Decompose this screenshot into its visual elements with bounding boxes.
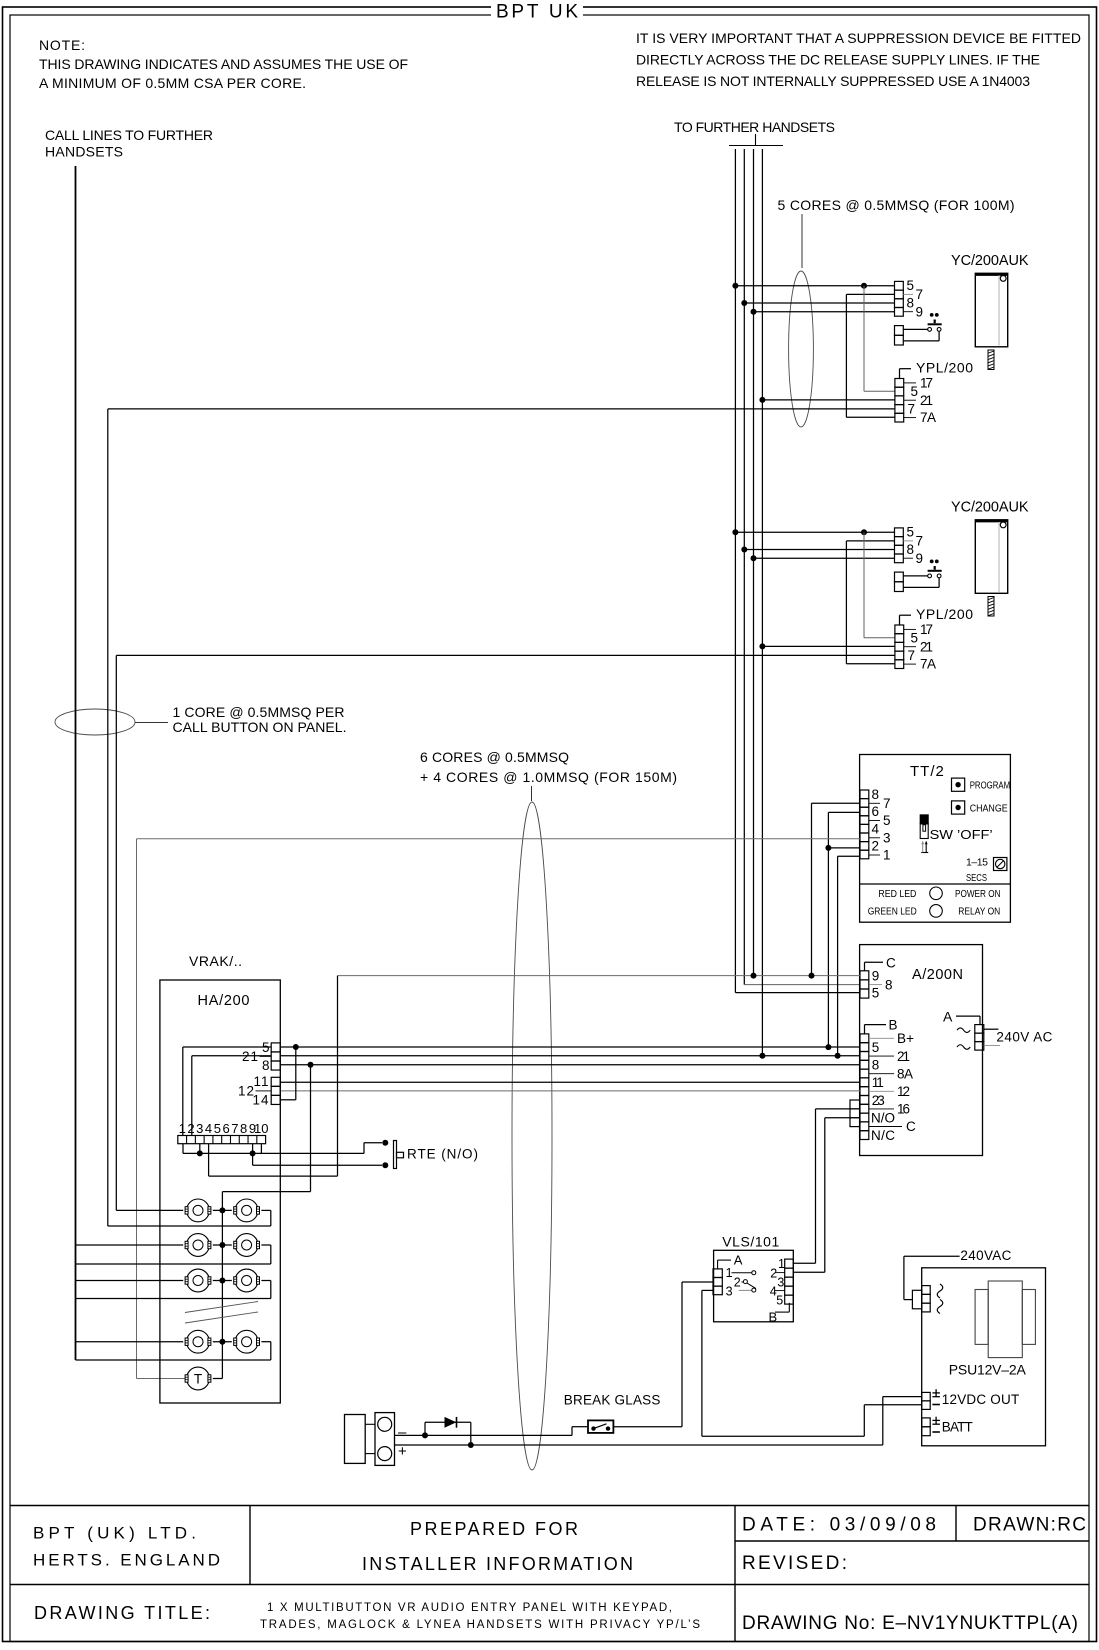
svg-text:2: 2: [734, 1275, 741, 1289]
wire row 4 feed: [76, 1341, 184, 1343]
wire bus4 to YPL 21: [759, 397, 895, 403]
wire row 3 link: [213, 1278, 232, 1284]
privacy switch #2: [903, 560, 941, 588]
svg-text:3: 3: [883, 830, 891, 845]
VLS contact 3: [739, 1288, 756, 1292]
wire panel to YPL2 terminal 7: [116, 655, 895, 1210]
label terminal 8: [907, 542, 915, 557]
svg-text:TO FURTHER HANDSETS: TO FURTHER HANDSETS: [674, 119, 835, 135]
cable ellipse 5 cores: [789, 271, 814, 427]
label YPL terminal 17: [904, 376, 933, 391]
wire HA200-5 internal to strip 1: [183, 1047, 271, 1136]
label plus: [398, 1443, 407, 1460]
leader line: [531, 786, 533, 801]
call button row 1 left: [185, 1199, 211, 1222]
svg-text:7A: 7A: [920, 410, 936, 425]
label A200N terminal 5: [872, 986, 880, 1001]
wire row 3 feed: [76, 1280, 184, 1282]
wire HA200-12 to A200N-12: [280, 1090, 860, 1092]
wire terminal 5 drop to YPL 5: [864, 532, 895, 638]
wire TT2-6/2 to A200N-5 net: [825, 812, 860, 1047]
label minus: [398, 1424, 407, 1441]
label TT2 terminal 2: [872, 839, 880, 854]
label YPL terminal 7A: [904, 657, 936, 672]
svg-text:21: 21: [920, 393, 933, 408]
label TT2 terminal 7: [869, 796, 891, 811]
privacy switch #1 terminals: [895, 326, 904, 345]
call button row 3 right: [234, 1269, 260, 1292]
wire row 1 feed: [116, 1209, 183, 1211]
AC wave symbols: [957, 1028, 970, 1049]
mains input A: [943, 1008, 980, 1024]
svg-text:DIRECTLY ACROSS THE DC RELEASE: DIRECTLY ACROSS THE DC RELEASE SUPPLY LI…: [636, 52, 1040, 68]
svg-text:5: 5: [907, 525, 915, 540]
wire strip 4 to common net: [209, 976, 338, 1177]
svg-text:BATT: BATT: [942, 1420, 973, 1435]
PSU mains plug: [912, 1286, 930, 1312]
PSU AC wave symbols: [937, 1284, 943, 1314]
label terminal 5: [907, 278, 915, 293]
svg-text:8: 8: [907, 542, 915, 557]
svg-text:PREPARED FOR: PREPARED FOR: [410, 1519, 578, 1539]
label TT2 terminal 4: [872, 821, 880, 836]
svg-text:8: 8: [907, 296, 915, 311]
wire row 2 feed: [76, 1244, 184, 1246]
wire terminal 7 to YPL 7A: [846, 294, 895, 417]
label VRAK/..: [189, 953, 242, 969]
wire row 1 link: [213, 1207, 232, 1213]
wire tick under label: [729, 134, 783, 146]
svg-text:DRAWING No: E–NV1YNUKTTPL(A): DRAWING No: E–NV1YNUKTTPL(A): [742, 1613, 1078, 1634]
drawing number field: [742, 1613, 1078, 1634]
label A200N terminal 8A: [869, 1066, 913, 1081]
leader line: [801, 214, 803, 268]
svg-text:8: 8: [872, 787, 880, 802]
label HA200 terminal 21: [242, 1049, 271, 1064]
svg-text:4: 4: [205, 1121, 212, 1136]
wire row 2 link: [213, 1242, 232, 1248]
svg-text:VRAK/..: VRAK/..: [189, 953, 242, 969]
svg-text:5: 5: [911, 384, 919, 399]
svg-text:7: 7: [908, 402, 916, 417]
label TT2 terminal 3: [869, 830, 891, 845]
svg-text:A MINIMUM OF 0.5MM CSA PER COR: A MINIMUM OF 0.5MM CSA PER CORE.: [39, 75, 306, 91]
svg-text:3: 3: [196, 1121, 203, 1136]
svg-text:CALL LINES TO FURTHER: CALL LINES TO FURTHER: [45, 127, 213, 143]
label VLS right 1: [778, 1257, 785, 1271]
wire HA200-21 to A200N-21: [280, 1053, 860, 1059]
label A200N terminal 8: [872, 1058, 880, 1073]
wire TT2-7 to A200N-9 net: [812, 803, 861, 975]
label YPL terminal 21: [904, 639, 933, 654]
svg-text:8: 8: [872, 1058, 880, 1073]
svg-text:8A: 8A: [897, 1066, 913, 1081]
svg-text:9: 9: [872, 969, 880, 984]
svg-text:YPL/200: YPL/200: [916, 360, 973, 376]
YPL/200 #2 terminal block: [895, 625, 904, 669]
svg-text:5: 5: [907, 278, 915, 293]
svg-text:POWER ON: POWER ON: [955, 888, 1001, 900]
title block lines: [10, 1506, 1089, 1642]
label TT2 terminal 1: [869, 848, 891, 863]
label YPL terminal 5: [911, 631, 919, 646]
call button row 2 right: [234, 1234, 260, 1257]
label VLS right 4: [770, 1284, 785, 1298]
drawing title text: [260, 1602, 700, 1631]
wire TT2-1 to A200N-21 net: [838, 856, 860, 1056]
svg-text:2: 2: [872, 839, 880, 854]
YPL/200 #1 terminal block: [895, 379, 904, 423]
label YPL terminal 7: [908, 402, 916, 417]
label VLS left 2: [734, 1275, 741, 1289]
maglock body: [345, 1413, 395, 1466]
wire PSU negative to VLS: [702, 1290, 864, 1436]
TT/2 slide switch SW OFF: [920, 815, 993, 842]
wire maglock positive to PSU: [395, 1444, 883, 1446]
label VLS left 1: [726, 1266, 733, 1280]
svg-text:HANDSETS: HANDSETS: [45, 144, 123, 160]
wire bus3 to terminal 9: [751, 309, 895, 315]
wire A200N-N/O to VLS-2: [793, 1118, 850, 1273]
svg-text:DRAWN:RC: DRAWN:RC: [973, 1515, 1086, 1536]
svg-text:5: 5: [911, 631, 919, 646]
label A200N terminal 16: [869, 1102, 910, 1117]
svg-text:11: 11: [872, 1075, 884, 1090]
wire HA200-21 internal to strip 2: [192, 1056, 271, 1136]
svg-text:1–15: 1–15: [966, 857, 988, 869]
label 240V AC: [984, 1029, 1053, 1045]
note text block: [39, 37, 408, 91]
handset YC/200AUK #1 body: [975, 273, 1007, 347]
svg-text:GREEN LED: GREEN LED: [868, 906, 917, 918]
svg-text:7: 7: [908, 648, 916, 663]
transformer: [975, 1281, 1035, 1358]
svg-text:5: 5: [872, 986, 880, 1001]
VLS contact 2 arm: [742, 1280, 757, 1289]
wire row 4 link: [213, 1339, 232, 1345]
svg-text:YPL/200: YPL/200: [916, 606, 973, 622]
A/200N label: [912, 967, 963, 983]
label 6 cores: [420, 749, 677, 785]
svg-text:A: A: [734, 1253, 743, 1268]
svg-text:7: 7: [916, 534, 924, 549]
svg-text:240V AC: 240V AC: [996, 1029, 1052, 1044]
svg-text:8: 8: [885, 977, 893, 992]
svg-text:23: 23: [872, 1093, 885, 1108]
label BATT: [932, 1417, 972, 1435]
svg-text:5: 5: [214, 1121, 221, 1136]
svg-text:21: 21: [897, 1049, 910, 1064]
svg-text:1: 1: [883, 848, 891, 863]
wire bus3 to terminal 9: [751, 555, 895, 561]
svg-text:4: 4: [872, 821, 880, 836]
svg-text:5: 5: [883, 813, 891, 828]
handset #2 cord coil: [988, 597, 994, 617]
svg-text:9: 9: [916, 551, 924, 566]
wire strip common line: [183, 1143, 382, 1157]
svg-text:14: 14: [252, 1093, 269, 1108]
svg-text:N/O: N/O: [871, 1110, 895, 1125]
wire terminal 7 to YPL 7A: [846, 541, 895, 664]
handset #1 cord coil: [988, 350, 994, 370]
wire row 3 return: [76, 1281, 271, 1299]
svg-text:7: 7: [883, 796, 891, 811]
svg-text:PROGRAM: PROGRAM: [970, 780, 1011, 792]
date field: [742, 1515, 936, 1536]
svg-text:RED LED: RED LED: [878, 888, 916, 900]
mains terminal block: [975, 1025, 984, 1051]
svg-text:PSU12V–2A: PSU12V–2A: [949, 1362, 1027, 1378]
svg-text:16: 16: [897, 1102, 910, 1117]
svg-text:5: 5: [872, 1040, 880, 1055]
TT/2 green LED: [868, 905, 1001, 918]
label A200N terminal 23: [872, 1093, 885, 1108]
svg-text:17: 17: [920, 622, 933, 637]
call button row 4 left: [185, 1330, 211, 1353]
svg-text:C: C: [906, 1119, 916, 1134]
svg-text:RELAY ON: RELAY ON: [958, 906, 1000, 918]
svg-text:THIS DRAWING INDICATES AND ASS: THIS DRAWING INDICATES AND ASSUMES THE U…: [39, 56, 408, 72]
svg-text:NOTE:: NOTE:: [39, 37, 86, 53]
label YPL terminal 7: [908, 648, 916, 663]
label VLS right 3: [777, 1275, 784, 1289]
label HA200 terminal 11: [253, 1074, 269, 1089]
YPL/200 #2 label: [900, 606, 974, 625]
wire bus1 to terminal 5: [732, 529, 894, 535]
wire row 1 return: [108, 1210, 271, 1226]
suppression diode D1: [422, 1417, 474, 1448]
call button row 4 right: [234, 1330, 260, 1353]
handset #1 terminal block 5/7/8/9: [895, 281, 904, 316]
label TT2 terminal 6: [872, 804, 880, 819]
svg-text:1 CORE @ 0.5MMSQ PER: 1 CORE @ 0.5MMSQ PER: [173, 704, 345, 720]
wire handset bus 1: [735, 149, 860, 993]
wire PSU +12V out: [883, 1397, 922, 1445]
wire HA200-8 to A200N-8: [280, 1062, 860, 1068]
label YPL terminal 5: [911, 384, 919, 399]
label to further handsets: [674, 119, 835, 135]
label A200N terminal 12: [869, 1084, 910, 1099]
cable ellipse 1 core: [55, 709, 135, 735]
wire panel to YPL1 terminal 7: [108, 409, 895, 1226]
svg-text:1: 1: [778, 1257, 785, 1271]
call button row 3 left: [185, 1269, 211, 1292]
break marks: [185, 1302, 258, 1324]
label TT2 terminal 5: [869, 813, 891, 828]
label terminal 5: [907, 525, 915, 540]
TT/2 link pins: [921, 841, 928, 853]
power supply PSU12V-2A box: [922, 1268, 1046, 1446]
label 12VDC OUT: [932, 1389, 1019, 1407]
HA200 terminal block 11/12/14: [271, 1077, 280, 1104]
A/200N terminal block 9/8/5: [860, 971, 869, 998]
svg-text:BREAK GLASS: BREAK GLASS: [564, 1393, 661, 1408]
wire button common vertical: [222, 1065, 310, 1379]
label A200N terminal N/C: [871, 1128, 895, 1143]
relay VLS/101 label: [722, 1234, 779, 1250]
PSU 12VDC OUT terminals: [922, 1392, 931, 1409]
label A200N terminal 9: [872, 969, 880, 984]
svg-text:RTE (N/O): RTE (N/O): [407, 1147, 478, 1162]
label RTE (N/O): [407, 1147, 478, 1162]
A/200N terminal block B+..N/C: [860, 1034, 869, 1140]
relay VLS/101 box: [714, 1250, 794, 1322]
label A200N terminal 21: [869, 1049, 910, 1064]
label A200N terminal C: [869, 1119, 916, 1134]
svg-text:240VAC: 240VAC: [960, 1248, 1011, 1263]
wire break glass to VLS: [613, 1282, 713, 1427]
label A200N terminal 8: [869, 977, 892, 992]
wire strip 9 to RTE: [250, 1144, 382, 1166]
svg-text:+ 4 CORES @ 1.0MMSQ (FOR 150M): + 4 CORES @ 1.0MMSQ (FOR 150M): [420, 769, 677, 785]
node C bracket: [865, 955, 897, 971]
label A200N terminal 5: [872, 1040, 880, 1055]
label PSU12V-2A: [949, 1362, 1027, 1378]
svg-text:5: 5: [776, 1293, 783, 1307]
timer TT/2 box: [860, 755, 1011, 923]
wire HA200-14 to 5 net: [280, 1047, 296, 1100]
trade button T: [185, 1367, 211, 1390]
wire bus2 to terminal 8: [741, 300, 894, 306]
svg-text:BPT UK: BPT UK: [496, 2, 578, 23]
label YPL terminal 21: [904, 393, 933, 408]
svg-text:21: 21: [920, 639, 933, 654]
drawing title field: [34, 1603, 210, 1623]
label A200N terminal B+: [869, 1031, 914, 1046]
privacy switch #2 terminals: [895, 572, 904, 591]
label HA200 terminal 12: [238, 1084, 271, 1099]
BPT UK title banner: [491, 0, 583, 23]
handset YC/200AUK #2 label: [951, 500, 1029, 516]
YPL/200 #1 label: [900, 360, 974, 379]
wire maglock negative: [395, 1427, 589, 1436]
TT/2 label: [910, 763, 945, 780]
svg-text:2: 2: [770, 1266, 777, 1280]
RTE push button: [382, 1140, 403, 1169]
VLS left terminal block: [713, 1269, 722, 1295]
label terminal 7: [903, 287, 923, 302]
wire call line bus: [75, 166, 77, 1360]
svg-text:TT/2: TT/2: [910, 763, 945, 780]
amplifier A/200N box: [860, 945, 983, 1156]
wire row 2 return: [76, 1245, 271, 1264]
wire handset bus 2: [744, 149, 860, 985]
wire terminal 5 drop to YPL 5: [864, 286, 895, 392]
VLS right terminal block: [785, 1259, 794, 1304]
svg-text:9: 9: [916, 304, 924, 319]
node A bracket: [718, 1253, 743, 1269]
TT/2 CHANGE button: [952, 801, 1008, 814]
label terminal 9: [903, 551, 923, 566]
wire PSU -12V out: [864, 1405, 921, 1436]
svg-text:6: 6: [872, 804, 880, 819]
svg-text:HA/200: HA/200: [198, 993, 250, 1009]
wire common to A200N-9: [338, 973, 861, 979]
svg-text:6 CORES @ 0.5MMSQ: 6 CORES @ 0.5MMSQ: [420, 749, 569, 765]
svg-text:7: 7: [916, 287, 924, 302]
TT/2 PROGRAM button: [952, 778, 1011, 791]
svg-text:5 CORES @ 0.5MMSQ (FOR 100M): 5 CORES @ 0.5MMSQ (FOR 100M): [778, 197, 1015, 213]
svg-text:8: 8: [240, 1121, 247, 1136]
wire HA200-5 to A200N-5: [280, 1044, 860, 1050]
label 240VAC: [960, 1248, 1011, 1263]
wire HA200-11 to A200N-11: [280, 1081, 860, 1083]
wire handset bus 3: [753, 149, 755, 976]
svg-text:1: 1: [179, 1121, 186, 1136]
label TT2 terminal 8: [872, 787, 880, 802]
node B bracket: [865, 1018, 898, 1034]
leader line: [135, 722, 168, 724]
label HA200 terminal 14: [252, 1093, 269, 1108]
label YPL terminal 17: [904, 622, 933, 637]
svg-text:DRAWING TITLE:: DRAWING TITLE:: [34, 1603, 210, 1623]
svg-text:INSTALLER INFORMATION: INSTALLER INFORMATION: [362, 1554, 633, 1574]
wire bus2 to terminal 8: [741, 547, 894, 553]
svg-text:YC/200AUK: YC/200AUK: [951, 500, 1029, 516]
label VLS right 2: [770, 1266, 784, 1280]
wire bus1 to terminal 5: [732, 283, 894, 289]
svg-text:RELEASE IS NOT INTERNALLY SUPP: RELEASE IS NOT INTERNALLY SUPPRESSED USE…: [636, 73, 1030, 89]
svg-text:C: C: [886, 955, 896, 970]
label HA200 terminal 8: [262, 1058, 270, 1073]
TT/2 terminal block 8..1: [860, 790, 869, 859]
svg-text:7: 7: [231, 1121, 238, 1136]
panel HA/200 box: [160, 980, 280, 1403]
svg-text:CHANGE: CHANGE: [970, 802, 1008, 814]
svg-text:3: 3: [777, 1275, 784, 1289]
label A200N terminal N/O: [871, 1110, 895, 1125]
wire VRAK common to TT2-3: [137, 839, 861, 1379]
label VLS right 5: [776, 1293, 783, 1307]
node B step: [769, 1303, 790, 1325]
svg-text:2: 2: [187, 1121, 194, 1136]
svg-text:CALL BUTTON ON PANEL.: CALL BUTTON ON PANEL.: [173, 719, 347, 735]
HA200 terminal block 5/21/8: [271, 1043, 280, 1070]
handset YC/200AUK #1 label: [951, 253, 1029, 269]
svg-text:T: T: [194, 1372, 202, 1387]
label HA200 terminal 5: [262, 1040, 270, 1055]
svg-text:B+: B+: [897, 1031, 914, 1046]
drawn field: [973, 1515, 1086, 1536]
svg-text:IT IS VERY IMPORTANT THAT A SU: IT IS VERY IMPORTANT THAT A SUPPRESSION …: [636, 30, 1081, 46]
svg-text:12VDC OUT: 12VDC OUT: [942, 1392, 1019, 1407]
svg-text:B: B: [769, 1309, 778, 1324]
label YPL terminal 7A: [904, 410, 936, 425]
svg-text:A: A: [943, 1008, 953, 1024]
svg-text:VLS/101: VLS/101: [722, 1234, 779, 1250]
label break glass: [564, 1393, 661, 1408]
VLS contact 1: [732, 1271, 756, 1275]
svg-text:YC/200AUK: YC/200AUK: [951, 253, 1029, 269]
svg-text:11: 11: [253, 1074, 269, 1089]
svg-text:8: 8: [262, 1058, 270, 1073]
label A200N terminal 11: [872, 1075, 884, 1090]
label call lines to further handsets: [45, 127, 213, 160]
svg-text:A/200N: A/200N: [912, 967, 963, 983]
svg-text:SW ’OFF’: SW ’OFF’: [930, 827, 993, 842]
wire 240VAC to PSU input: [904, 1256, 960, 1299]
privacy switch #1: [903, 313, 941, 341]
wire A200N-16 to VLS-1: [793, 1109, 850, 1263]
svg-text:N/C: N/C: [871, 1128, 895, 1143]
TT/2 red LED: [878, 887, 1000, 900]
label terminal 9: [903, 304, 923, 319]
TT/2 timer pot 1-15 SECS: [966, 857, 1007, 885]
svg-text:SECS: SECS: [966, 872, 987, 884]
svg-text:12: 12: [897, 1084, 910, 1099]
HA200 button terminal strip 1-10: [178, 1136, 266, 1144]
svg-text:–: –: [398, 1424, 407, 1441]
